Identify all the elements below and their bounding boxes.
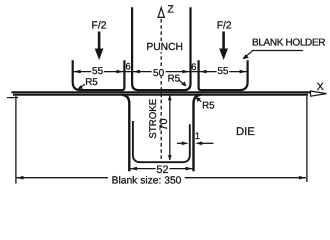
right F/2 force arrow [219, 32, 228, 61]
dimension 1 (clearance): left arrow [177, 142, 184, 144]
blank size dimension line right segment [185, 177, 306, 179]
left blank holder outline [73, 60, 125, 90]
svg-text:55: 55 [92, 66, 104, 77]
svg-text:BLANK HOLDER: BLANK HOLDER [252, 37, 326, 48]
dimension 52: arrowheads [130, 167, 137, 171]
dimension 55 right: line [190, 71, 246, 73]
svg-text:F/2: F/2 [92, 21, 107, 32]
BLANK HOLDER leader line [246, 51, 303, 57]
svg-text:6: 6 [126, 62, 131, 73]
blank size arrowheads [17, 176, 24, 180]
R5 leader die corner [199, 99, 202, 101]
R5 leader blank holder [80, 84, 85, 88]
blank size dimension line left segment [17, 177, 108, 179]
stroke dimension line [169, 96, 171, 160]
blank size left extension line [15, 96, 17, 184]
stroke dimension arrowheads [168, 95, 172, 101]
dimension 55 left: line [74, 71, 132, 73]
dimension 52: text background [156, 164, 170, 173]
blank size right extension line [306, 96, 308, 182]
svg-text:DIE: DIE [236, 126, 255, 138]
blank sheet bottom line (die/holder surface) [13, 94, 308, 96]
dimension 50: text background [152, 67, 166, 77]
centerline Z (dashed) [160, 19, 162, 160]
dimension 52: line [130, 168, 193, 170]
Z axis open arrow [158, 8, 164, 18]
R5 leader punch corner [179, 80, 183, 84]
BLANK HOLDER leader arrowhead [242, 54, 249, 59]
dimension 55 left: text background [91, 67, 104, 75]
svg-text:R5: R5 [168, 74, 181, 85]
blank sheet top line [12, 91, 312, 93]
svg-text:X: X [317, 81, 324, 93]
svg-text:R5: R5 [85, 77, 98, 88]
die right wall with shoulder radius [194, 95, 201, 172]
svg-text:STROKE: STROKE [148, 98, 159, 138]
svg-text:50: 50 [153, 68, 165, 79]
svg-text:70: 70 [158, 118, 170, 130]
dimension 55 left: arrowheads [74, 70, 81, 74]
die left wall with shoulder radius [122, 95, 130, 172]
left F/2 force arrow [95, 32, 104, 61]
svg-text:R5: R5 [202, 100, 215, 111]
dimension 55 right: text background [217, 67, 230, 75]
punch outline [132, 7, 190, 90]
svg-text:Z: Z [167, 3, 174, 15]
svg-text:Blank size: 350: Blank size: 350 [112, 175, 182, 186]
left end tick below sheet [7, 97, 18, 99]
svg-text:PUNCH: PUNCH [146, 42, 183, 53]
svg-text:F/2: F/2 [217, 21, 232, 32]
dimension 55 right: arrowheads [200, 70, 207, 74]
dimension 50: line [132, 71, 191, 73]
drawn cup (deformed sheet) [133, 121, 190, 162]
svg-text:1: 1 [195, 131, 200, 142]
svg-text:55: 55 [217, 66, 229, 77]
X axis open arrow [311, 91, 327, 96]
right blank holder outline [199, 60, 248, 90]
dimension 1: right arrow with tail [199, 142, 214, 144]
dimension 50: arrowheads [133, 70, 140, 74]
punch label background [147, 41, 184, 52]
